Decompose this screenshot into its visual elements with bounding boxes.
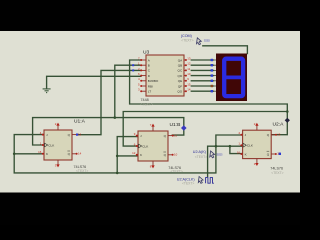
wire: U3 QD to display segment xyxy=(191,75,213,77)
svg-text:U1:A: U1:A xyxy=(74,118,86,124)
svg-text:CLK: CLK xyxy=(48,143,55,147)
wire: U1:B Q feedback to U1:A CLK xyxy=(33,118,184,145)
svg-text:35353: 35353 xyxy=(204,39,211,43)
svg-text:12: 12 xyxy=(132,151,136,155)
wire: U3 QC to display segment xyxy=(191,69,213,71)
svg-text:12: 12 xyxy=(187,62,191,66)
svg-text:11: 11 xyxy=(174,133,177,137)
IC U3 (7448 BCD to 7-seg decoder) xyxy=(132,50,191,107)
wire: U1:B J branch xyxy=(117,137,138,173)
svg-text:U2:A(K): U2:A(K) xyxy=(193,150,206,154)
svg-text:QG: QG xyxy=(177,90,182,94)
svg-text:<TEXT>: <TEXT> xyxy=(141,102,153,106)
svg-text:U2:A: U2:A xyxy=(273,121,285,127)
wire: display COM to probe xyxy=(203,46,248,54)
probe U2:A(K) xyxy=(193,150,223,159)
svg-text:(COM): (COM) xyxy=(181,34,192,38)
svg-text:QD: QD xyxy=(178,74,183,78)
wire: U2:A K step branch xyxy=(230,146,243,153)
svg-text:15: 15 xyxy=(187,82,191,86)
svg-text:<TEXT>: <TEXT> xyxy=(181,38,193,42)
wire: mid feedback to U1:B CLK xyxy=(123,112,287,147)
svg-text:15: 15 xyxy=(277,133,281,137)
svg-text:QE: QE xyxy=(178,79,182,83)
flip-flop U1:B (74LS76) xyxy=(132,123,177,169)
wire: U3 QE to display segment xyxy=(191,80,213,82)
wire: U1:A K branch xyxy=(14,153,44,155)
7-segment display (shows 8) xyxy=(211,54,247,102)
svg-text:BI/RBO: BI/RBO xyxy=(148,79,159,83)
node marker diamond on U1:B Q net xyxy=(181,125,187,131)
wire: U3 QA to display segment xyxy=(191,59,213,61)
probe (COM) xyxy=(181,34,211,45)
flip-flop U1:A (74LS76) xyxy=(38,122,81,168)
wire: U3 QF to display segment xyxy=(191,85,213,87)
svg-text:14: 14 xyxy=(187,88,191,92)
svg-text:<TEXT>: <TEXT> xyxy=(182,182,194,186)
wire: U2:A Q to U3.A (top feedback) xyxy=(130,60,288,135)
letterbox bar top xyxy=(0,0,300,31)
svg-text:U1:B: U1:B xyxy=(170,122,181,128)
svg-text:CLK: CLK xyxy=(142,144,149,148)
wire: net B vertical to U3.B xyxy=(115,65,141,117)
wire: U1:A J-K tie to bottom clock rail and U2:A J xyxy=(14,135,242,173)
wire: U1:A Q to U3.C xyxy=(77,70,141,134)
wire: U3 QB to display segment xyxy=(191,64,213,66)
svg-text:<TEXT>: <TEXT> xyxy=(171,169,183,173)
svg-text:16: 16 xyxy=(38,150,42,154)
svg-text:<TEXT>: <TEXT> xyxy=(271,171,283,175)
wire: ground to U3.D xyxy=(47,76,141,88)
clock generator symbol xyxy=(206,178,214,184)
svg-text:7448: 7448 xyxy=(141,98,149,102)
ground xyxy=(43,89,51,93)
svg-text:35353: 35353 xyxy=(216,152,223,156)
node marker diamond on U2:A Q net xyxy=(285,118,290,123)
svg-text:<TEXT>: <TEXT> xyxy=(76,169,88,173)
svg-text:11: 11 xyxy=(187,67,190,71)
flip-flop U2:A (74LS76) xyxy=(237,122,281,166)
svg-text:QF: QF xyxy=(178,84,182,88)
svg-text:CLK: CLK xyxy=(247,144,254,148)
svg-text:10: 10 xyxy=(187,72,191,76)
svg-text:LT: LT xyxy=(148,90,151,94)
wire: U1:B K branch xyxy=(117,155,138,157)
svg-text:<TEXT>: <TEXT> xyxy=(195,155,207,159)
wire: U3 QG to display segment xyxy=(191,90,213,92)
svg-text:RBI: RBI xyxy=(148,84,153,88)
svg-text:15: 15 xyxy=(78,132,82,136)
svg-text:QB: QB xyxy=(178,64,182,68)
junction dots xyxy=(114,116,117,119)
svg-text:10: 10 xyxy=(174,153,178,157)
svg-text:U3: U3 xyxy=(143,50,150,56)
wire: clock generator to U2:A CLK xyxy=(208,146,243,176)
svg-text:13: 13 xyxy=(187,56,191,60)
probe U2:A(CLK) xyxy=(177,177,203,186)
svg-text:B: B xyxy=(148,64,150,68)
letterbox bar bottom xyxy=(0,193,300,226)
svg-text:QC: QC xyxy=(178,69,183,73)
svg-text:74LS76: 74LS76 xyxy=(270,167,283,171)
svg-text:14: 14 xyxy=(78,152,82,156)
svg-text:16: 16 xyxy=(237,150,241,154)
